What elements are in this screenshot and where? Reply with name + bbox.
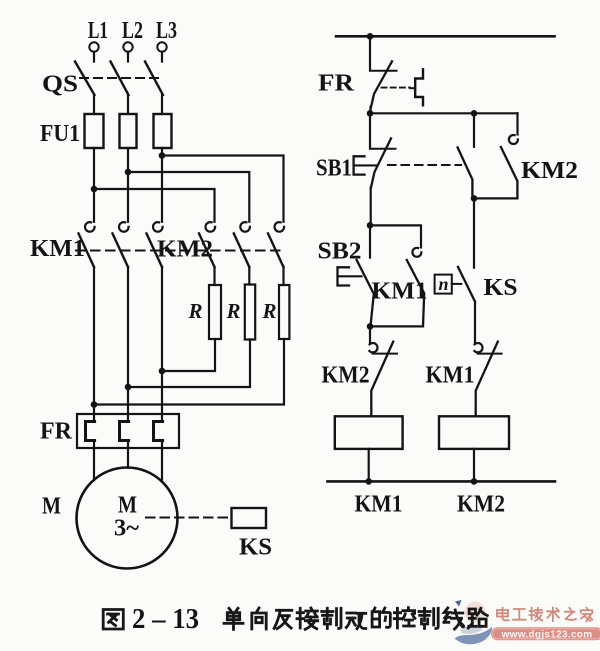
svg-text:KM2: KM2: [157, 236, 213, 263]
svg-text:3~: 3~: [114, 515, 139, 542]
svg-text:KM1: KM1: [426, 362, 475, 389]
svg-text:2 – 13: 2 – 13: [132, 604, 199, 635]
svg-text:FU1: FU1: [40, 120, 80, 147]
svg-text:KM2: KM2: [521, 157, 578, 184]
svg-text:M: M: [42, 493, 61, 520]
svg-text:KM1: KM1: [30, 235, 85, 262]
svg-text:R: R: [226, 299, 241, 323]
svg-text:SB2: SB2: [318, 238, 362, 265]
svg-text:FR: FR: [40, 418, 72, 445]
svg-text:n: n: [439, 274, 449, 294]
svg-text:FR: FR: [318, 70, 354, 97]
svg-text:KS: KS: [239, 534, 272, 561]
svg-text:QS: QS: [42, 71, 78, 98]
svg-text:L1: L1: [88, 17, 108, 44]
svg-text:KM2: KM2: [322, 362, 370, 389]
svg-text:KM2: KM2: [457, 491, 505, 518]
svg-text:L3: L3: [156, 17, 177, 44]
svg-text:SB1: SB1: [316, 155, 352, 182]
svg-text:KM1: KM1: [355, 491, 403, 518]
svg-text:KS: KS: [484, 274, 518, 301]
svg-text:www.dgjs123.com: www.dgjs123.com: [501, 629, 593, 640]
svg-text:R: R: [262, 299, 277, 323]
svg-text:R: R: [188, 299, 203, 323]
svg-text:L2: L2: [122, 17, 143, 44]
svg-text:KM1: KM1: [372, 278, 428, 305]
